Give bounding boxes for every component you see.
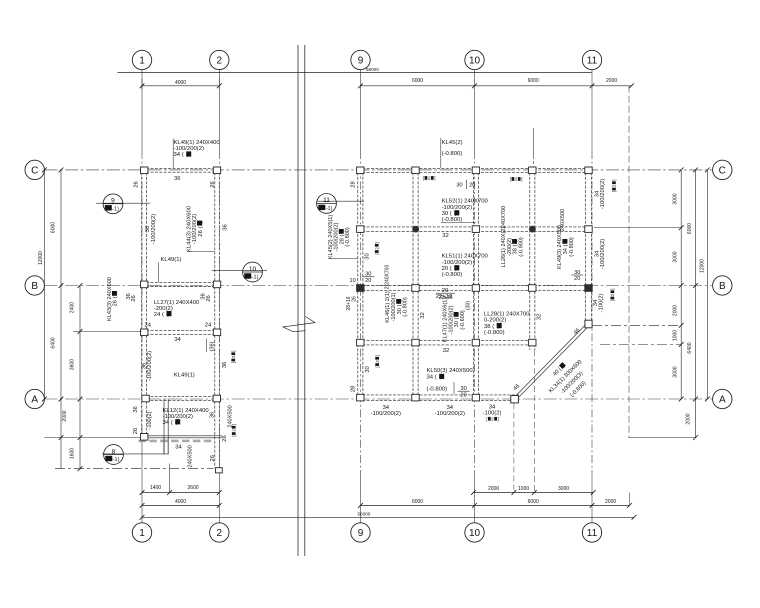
annotation rotated 30 tag row2-B cell1 xyxy=(364,253,370,260)
svg-text:]: ] xyxy=(612,179,617,180)
svg-text:6000: 6000 xyxy=(528,78,539,84)
annotation rotated 26 tag below right xyxy=(222,435,228,442)
svg-text:26: 26 xyxy=(351,296,357,302)
right dimension chain 6000 6400 2000 xyxy=(695,170,697,438)
right plan columns row B xyxy=(357,285,364,292)
bottom dimension row1 right 2000 1000 3000 xyxy=(473,492,593,494)
bottom overall line 58000 xyxy=(142,516,634,518)
svg-text:34: 34 xyxy=(175,445,182,451)
left plan bottom beam KL12 (solid) xyxy=(141,435,222,437)
svg-text:24: 24 xyxy=(205,322,212,328)
svg-text:]: ] xyxy=(231,424,236,425)
svg-text:-100/200(2): -100/200(2) xyxy=(371,411,401,417)
svg-text:30: 30 xyxy=(364,253,370,260)
svg-text:26: 26 xyxy=(131,295,137,302)
annotation rotated KL46(1) block xyxy=(385,291,391,323)
annotation rotated 240X700 on mid wall xyxy=(501,206,507,228)
svg-text:3000: 3000 xyxy=(558,486,569,492)
left plan beam KL49 on axis A xyxy=(142,396,220,400)
svg-text:24: 24 xyxy=(144,322,151,328)
svg-text:2000: 2000 xyxy=(606,78,617,84)
svg-text:]: ] xyxy=(434,176,435,181)
right plan beam row 3 xyxy=(358,340,535,345)
right plan beam wall axis 10 vertical xyxy=(473,168,478,400)
annotation rotated 30 tag row3-A cell1 xyxy=(365,366,371,373)
svg-text:32: 32 xyxy=(443,348,450,354)
svg-text:6000: 6000 xyxy=(412,78,423,84)
right plan beam wall mid 10-11 vertical xyxy=(530,168,535,350)
grid circles right column xyxy=(713,160,732,179)
detail circle 8 xyxy=(102,453,128,455)
grid circles left column xyxy=(25,160,44,179)
svg-text:26: 26 xyxy=(206,295,212,302)
svg-text:10: 10 xyxy=(349,278,355,284)
svg-text:3000: 3000 xyxy=(672,251,678,262)
left plan beam wall grid-1 vertical xyxy=(142,168,147,438)
svg-text:(-0.800): (-0.800) xyxy=(484,330,505,336)
svg-text:KL50(3) 240X500: KL50(3) 240X500 xyxy=(427,368,474,374)
svg-text:2600: 2600 xyxy=(187,485,198,491)
svg-text:2000: 2000 xyxy=(488,486,499,492)
vertical grid axis lines (solid-dash-solid) xyxy=(141,70,143,151)
svg-text:11: 11 xyxy=(587,528,598,539)
svg-text:8: 8 xyxy=(112,448,116,455)
annotation 36 -100/200(2) rotated in C-B room xyxy=(145,225,151,232)
bottom dimension row1 left 1400 2600 xyxy=(142,492,219,494)
svg-text:(-0.800): (-0.800) xyxy=(442,217,463,223)
annotation 36 rotated outside right xyxy=(222,224,228,231)
svg-text:32: 32 xyxy=(420,312,426,319)
svg-text:10: 10 xyxy=(469,528,481,539)
annotation rotated 240X500 cell C4 xyxy=(560,209,566,231)
left plan slab edge thick grey dashed xyxy=(138,440,213,443)
horizontal grid axis line B xyxy=(44,285,712,287)
annotation rotated 2-240X700 xyxy=(384,265,390,290)
svg-text:]: ] xyxy=(610,288,615,289)
svg-text:(-0.800): (-0.800) xyxy=(427,386,448,392)
svg-text:6000: 6000 xyxy=(51,222,57,233)
svg-text:6000: 6000 xyxy=(687,223,693,234)
svg-text:2000: 2000 xyxy=(62,410,68,421)
svg-text:34: 34 xyxy=(447,405,454,411)
svg-text:-100(2): -100(2) xyxy=(147,411,153,429)
annotation rotated 240X500 outside right xyxy=(228,405,234,427)
detail circle 9 xyxy=(96,202,150,204)
annotation (36) rotated at right beam xyxy=(210,341,216,351)
svg-text:]: ] xyxy=(374,242,379,243)
svg-text:(-0.800): (-0.800) xyxy=(403,297,409,317)
bottom extension lines xyxy=(169,464,171,493)
svg-text:1600: 1600 xyxy=(69,448,75,459)
right plan beam on axis B xyxy=(358,285,592,290)
right plan beam wall axis 9 vertical xyxy=(358,168,363,400)
left plan beam wall grid-2 vertical xyxy=(215,168,220,468)
top dimension line left 4000 xyxy=(142,85,219,87)
annotation rotated 32 cell B2 xyxy=(420,312,426,319)
svg-text:(-0.900): (-0.900) xyxy=(519,237,525,257)
annotation rotated KL49(3) block xyxy=(557,225,563,269)
annotation 36 -100/200(2) rotated in big room xyxy=(141,362,147,369)
horizontal grid axis line C xyxy=(44,169,712,171)
annotation KL43(3) rotated left of axis B xyxy=(107,277,113,321)
svg-text:1: 1 xyxy=(139,528,145,539)
svg-text:9: 9 xyxy=(358,55,364,66)
svg-text:28: 28 xyxy=(350,181,356,188)
annotation KL45(2) rotated left of axis 9 xyxy=(328,215,334,260)
svg-text:3600: 3600 xyxy=(69,359,75,370)
left plan beam LL27 lower chord xyxy=(142,330,220,334)
annotation rotated LL26(1) block xyxy=(501,227,507,268)
svg-text:]: ] xyxy=(498,416,499,421)
svg-text:36: 36 xyxy=(222,224,228,231)
svg-text:-100(2): -100(2) xyxy=(599,293,605,312)
svg-text:6000: 6000 xyxy=(412,499,423,505)
svg-text:11: 11 xyxy=(323,197,330,204)
svg-text:10: 10 xyxy=(469,55,481,66)
svg-text:KL49(1): KL49(1) xyxy=(161,257,182,263)
svg-text:6000: 6000 xyxy=(528,499,539,505)
svg-text:(36): (36) xyxy=(210,341,216,351)
right plan columns row A xyxy=(357,394,364,401)
right leader lines to dimension chains xyxy=(594,227,681,229)
right plan beam wall mid 9-10 vertical xyxy=(413,168,418,400)
svg-text:6400: 6400 xyxy=(51,337,57,348)
svg-text:36: 36 xyxy=(174,176,181,182)
right plan columns row 3 xyxy=(357,339,364,346)
right plan columns row 2 xyxy=(357,226,364,233)
left dimension chain 2400 3600 1600 xyxy=(79,286,81,469)
top dimension line right 6000 6000 2000 xyxy=(361,85,632,87)
svg-text:(-0.800): (-0.800) xyxy=(345,227,351,247)
svg-text:58000: 58000 xyxy=(358,512,371,517)
annotation rotated 46 lower on diagonal xyxy=(513,383,522,392)
svg-text:34: 34 xyxy=(383,405,390,411)
svg-text:-100/200(2): -100/200(2) xyxy=(151,214,157,244)
svg-text:-100/200(2): -100/200(2) xyxy=(442,260,472,266)
annotation rotated 240X500 below bottom beam xyxy=(188,445,194,467)
svg-text:A: A xyxy=(719,394,726,405)
right dimension chain 3000 3000 2000 1000 3000 xyxy=(680,170,682,399)
annotation rotated 34 tags right of axis 11 lower xyxy=(593,299,599,306)
annotation rotated (30) xyxy=(465,301,471,310)
svg-text:LL28(1) 240X700: LL28(1) 240X700 xyxy=(484,311,530,317)
annotation rotated 46 upper on diagonal xyxy=(573,328,582,337)
svg-text:4000: 4000 xyxy=(175,80,186,86)
svg-text:3000: 3000 xyxy=(672,366,678,377)
svg-text:20: 20 xyxy=(365,278,371,284)
annotation rotated KL47(1) block xyxy=(443,298,449,343)
svg-text:A: A xyxy=(31,394,38,405)
svg-text:26: 26 xyxy=(133,427,139,434)
svg-text:(-0.800): (-0.800) xyxy=(442,272,463,278)
svg-text:26: 26 xyxy=(210,181,216,188)
left dimension chain 12000 xyxy=(43,170,45,399)
svg-text:36: 36 xyxy=(210,411,216,418)
annotation rotated 28+16 and 26 below B at axis 9 xyxy=(346,296,352,310)
left plan interior beam vertical xyxy=(164,399,168,455)
svg-text:2000: 2000 xyxy=(686,413,692,424)
svg-text:-100/200(2): -100/200(2) xyxy=(600,239,606,269)
left plan columns xyxy=(141,167,148,174)
svg-text:2: 2 xyxy=(217,55,223,66)
svg-text:3000: 3000 xyxy=(672,193,678,204)
svg-text:20: 20 xyxy=(574,276,580,282)
extension line above axis C at mid 10-11 xyxy=(533,128,535,156)
bottom dimension row2 left 4000 xyxy=(142,504,219,506)
bottom dimension row2 right 6000 6000 2000 xyxy=(361,504,630,506)
annotation 28 rotated below C at axis 9 xyxy=(350,181,356,188)
svg-text:-100/200(2): -100/200(2) xyxy=(435,411,465,417)
annotation rotated 32 cell B3 xyxy=(536,314,542,321)
grid circles top row xyxy=(132,50,151,69)
top border line xyxy=(118,72,592,74)
left leader lines to dimension chains xyxy=(44,437,141,439)
right plan beam wall axis 11 vertical xyxy=(585,168,591,328)
extension line 2000 right of axis 11 (dashed) xyxy=(628,86,630,438)
svg-text:0-200(2): 0-200(2) xyxy=(484,318,506,324)
right plan beam KL50 on axis A xyxy=(358,395,519,400)
detail circle 11 xyxy=(317,200,364,202)
svg-text:2000: 2000 xyxy=(605,499,616,505)
right plan beam row 2 xyxy=(358,227,592,231)
left dimension chain 6000 6400 xyxy=(60,170,62,469)
left plan beam KL49 on axis C xyxy=(142,168,220,172)
svg-text:C: C xyxy=(719,165,726,176)
svg-text:-100/200(2): -100/200(2) xyxy=(147,351,153,381)
svg-text:20: 20 xyxy=(460,392,466,398)
svg-text:26: 26 xyxy=(222,435,228,442)
svg-text:]: ] xyxy=(375,355,380,356)
svg-text:240X500: 240X500 xyxy=(188,445,194,467)
annotation rotated 34 tags right of axis 11 mid xyxy=(595,250,601,257)
svg-text:C: C xyxy=(31,165,38,176)
svg-text:9: 9 xyxy=(111,198,115,205)
svg-text:9: 9 xyxy=(358,528,364,539)
svg-text:B: B xyxy=(719,281,726,292)
svg-text:32: 32 xyxy=(442,233,449,239)
svg-text:KL52(1) 240X700: KL52(1) 240X700 xyxy=(442,199,489,205)
left plan beam on axis B xyxy=(142,282,220,286)
svg-text:240X700: 240X700 xyxy=(501,206,507,228)
svg-text:4000: 4000 xyxy=(175,499,186,505)
annotation rotated 28 at axis 9 bottom xyxy=(350,385,356,392)
right plan diagonal beam KL34 xyxy=(514,323,590,400)
svg-text:20: 20 xyxy=(469,182,475,188)
annotation 26 rotated right of C-B room xyxy=(210,181,216,188)
annotation 26 rotated left of C-B room xyxy=(134,181,140,188)
svg-text:(30): (30) xyxy=(465,301,471,310)
svg-text:26: 26 xyxy=(134,181,140,188)
annotation rotated 34 tags right of axis 11 upper xyxy=(595,190,601,197)
svg-text:26: 26 xyxy=(210,454,216,461)
svg-text:B: B xyxy=(31,281,38,292)
annotation rotated 26 below bottom beam xyxy=(210,454,216,461)
annotation diagonal KL34 text block rotated 45 xyxy=(552,362,567,377)
annotation KL44(3) 240X600 rotated xyxy=(187,205,193,252)
svg-text:KL51(1) 240X700: KL51(1) 240X700 xyxy=(442,254,489,260)
annotation rotated 36 26 left of KL12 room xyxy=(133,406,139,413)
detail circle 10 xyxy=(212,270,267,272)
svg-text:34: 34 xyxy=(174,337,181,343)
break zigzag symbol xyxy=(283,317,315,332)
svg-text:(-0.600): (-0.600) xyxy=(460,310,466,330)
annotation 36 26 pair below B right xyxy=(201,293,207,300)
svg-text:36: 36 xyxy=(133,406,139,413)
svg-text:36: 36 xyxy=(222,361,228,368)
right plan dark column blobs row 2 xyxy=(412,226,419,233)
svg-text:58000: 58000 xyxy=(366,67,379,72)
annotation 36 26 pair below B left xyxy=(126,293,132,300)
svg-text:32: 32 xyxy=(536,314,542,321)
right plan columns row C xyxy=(357,167,364,174)
svg-text:]: ] xyxy=(231,350,236,351)
annotation 36 tag rotated outside right of big room xyxy=(222,361,228,368)
svg-text:30: 30 xyxy=(365,366,371,373)
right dimension chain 12000 xyxy=(706,170,708,399)
svg-text:1400: 1400 xyxy=(150,485,161,491)
svg-text:1: 1 xyxy=(139,55,145,66)
svg-text:(-0.800): (-0.800) xyxy=(442,151,463,157)
svg-text:28: 28 xyxy=(350,385,356,392)
left plan column at bottom of grid-2 wall xyxy=(216,468,223,473)
grid circles bottom row xyxy=(132,523,151,542)
svg-text:1000: 1000 xyxy=(672,330,678,341)
svg-text:KL45(2): KL45(2) xyxy=(442,140,463,146)
svg-text:-100/200(2): -100/200(2) xyxy=(600,179,606,209)
svg-text:-1): -1) xyxy=(112,206,119,212)
svg-text:-1): -1) xyxy=(326,206,333,212)
horizontal grid axis line A xyxy=(44,398,712,400)
svg-text:12000: 12000 xyxy=(700,259,706,273)
svg-text:-1): -1) xyxy=(252,275,259,281)
svg-text:2400: 2400 xyxy=(69,302,75,313)
svg-text:2000: 2000 xyxy=(672,305,678,316)
svg-text:(-0.800): (-0.800) xyxy=(569,237,575,257)
left plan step lines below bottom beam xyxy=(163,438,165,455)
right plan diagonal end columns xyxy=(585,320,592,328)
svg-text:]: ] xyxy=(521,177,522,182)
svg-text:6400: 6400 xyxy=(687,342,693,353)
svg-text:1000: 1000 xyxy=(518,486,529,492)
svg-text:2-240X700: 2-240X700 xyxy=(384,265,390,290)
svg-text:12000: 12000 xyxy=(38,251,44,265)
svg-text:30: 30 xyxy=(456,182,462,188)
svg-text:-1): -1) xyxy=(113,457,120,463)
svg-text:10: 10 xyxy=(249,266,257,273)
svg-text:KL49(1): KL49(1) xyxy=(174,373,195,379)
right plan beam KL45 on axis C xyxy=(358,168,592,172)
svg-text:11: 11 xyxy=(587,55,598,66)
svg-text:-100/200(2): -100/200(2) xyxy=(442,205,472,211)
annotation rotated 36 on right beam of KL12 room xyxy=(210,411,216,418)
match line break (double vertical) xyxy=(297,45,299,556)
svg-text:2: 2 xyxy=(217,528,223,539)
